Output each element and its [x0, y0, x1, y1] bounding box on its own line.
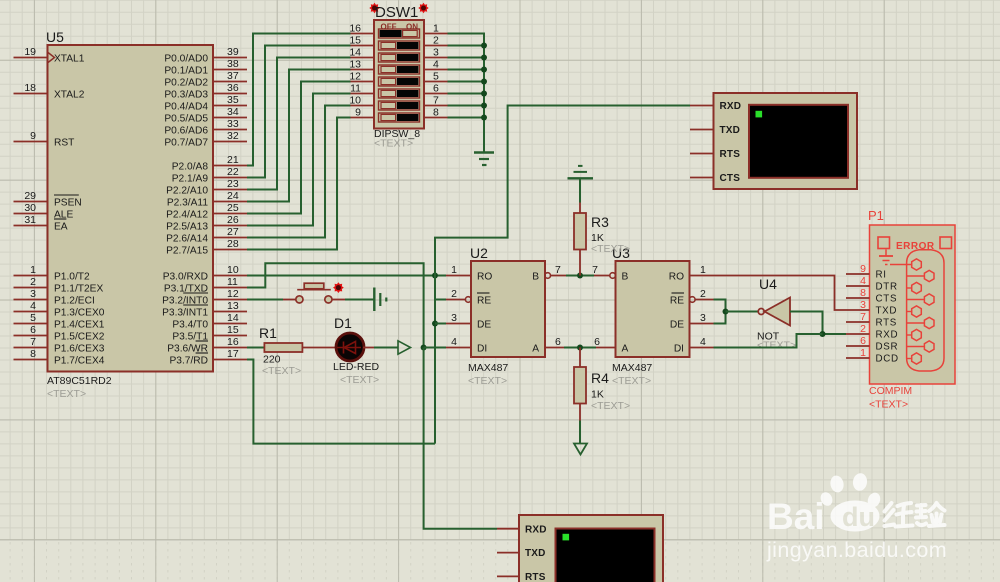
- svg-text:RO: RO: [669, 271, 684, 282]
- DIP switch DSW1 body: [374, 20, 424, 129]
- wire branch to U2 DE: [435, 323, 446, 325]
- wire DSW1 pin 12 to U5 P2.4: [247, 82, 351, 214]
- wire R3 to B line: [579, 250, 581, 276]
- svg-text:2: 2: [433, 35, 439, 47]
- DSW1 pin 1: [424, 23, 448, 35]
- U5 pin 30 ALE: [14, 202, 74, 220]
- wire R4 down: [579, 404, 581, 444]
- U5 pin 32 P0.7/AD7: [164, 130, 247, 148]
- P1 pin 3 TXD: [846, 299, 897, 317]
- DSW1 switch element 6: [379, 89, 420, 98]
- svg-text:3: 3: [700, 312, 706, 324]
- svg-text:3: 3: [860, 299, 866, 311]
- wire DSW1 pin 8 to bus junction: [448, 115, 488, 121]
- svg-text:P0.3/AD3: P0.3/AD3: [164, 89, 208, 100]
- junction node A line: [577, 345, 583, 351]
- svg-text:RI: RI: [876, 270, 887, 281]
- P1 pin 8 CTS: [846, 287, 897, 305]
- svg-text:24: 24: [227, 190, 239, 202]
- svg-text:39: 39: [227, 46, 239, 58]
- R4 labels: [591, 370, 630, 412]
- VT1 pin TXD: [690, 125, 740, 136]
- junction node B line: [577, 273, 583, 279]
- svg-text:10: 10: [349, 95, 361, 107]
- svg-text:R3: R3: [591, 214, 609, 230]
- DSW1 value label: [374, 128, 420, 150]
- svg-text:6: 6: [30, 324, 36, 336]
- U5 pin 9 RST: [14, 130, 75, 148]
- svg-text:P1: P1: [868, 208, 884, 223]
- svg-text:CTS: CTS: [876, 294, 898, 305]
- U5 pin 24 P2.3/A11: [167, 190, 247, 208]
- U5 pin 12 P3.2/INT0: [162, 288, 247, 306]
- U2 value label: [468, 362, 508, 387]
- P1 pin 9 RI: [846, 263, 887, 281]
- wire U5 P3.7 to RE/DE net: [247, 360, 435, 444]
- D1 labels: [333, 315, 380, 386]
- svg-text:B: B: [622, 271, 629, 282]
- DSW1 pin 9: [351, 107, 375, 119]
- VT2 pin RXD: [497, 524, 547, 535]
- wire DSW1 pin 11 to U5 P2.5: [247, 94, 351, 226]
- VT2 pin RTS: [497, 572, 546, 582]
- svg-text:6: 6: [555, 336, 561, 348]
- P1 DB9 connector face: [890, 250, 944, 371]
- svg-text:P1.6/CEX3: P1.6/CEX3: [54, 343, 105, 354]
- svg-text:P3.7/RD: P3.7/RD: [169, 355, 208, 366]
- svg-text:14: 14: [227, 312, 239, 324]
- U5 pin 18 XTAL2: [14, 82, 85, 100]
- svg-text:9: 9: [355, 107, 361, 119]
- svg-text:P2.0/A8: P2.0/A8: [172, 161, 209, 172]
- DSW1 pin 11: [350, 83, 374, 95]
- svg-text:P2.7/A15: P2.7/A15: [166, 245, 208, 256]
- VT1 pin CTS: [690, 173, 740, 184]
- svg-text:U4: U4: [759, 276, 777, 292]
- baidu watermark chinese: [885, 503, 945, 527]
- svg-text:29: 29: [24, 190, 36, 202]
- wire VT1 RXD to RO net: [435, 106, 690, 276]
- svg-text:13: 13: [227, 300, 239, 312]
- wire DSW1 pin 14 to U5 P2.2: [247, 58, 351, 190]
- svg-text:2: 2: [451, 288, 457, 300]
- svg-text:31: 31: [24, 214, 36, 226]
- wire DI node to U2 DI: [424, 347, 446, 349]
- svg-text:12: 12: [349, 71, 361, 83]
- svg-text:RTS: RTS: [876, 318, 898, 329]
- U3 pin 7 B: [592, 264, 628, 282]
- wire arrow: [398, 341, 411, 354]
- svg-text:7: 7: [592, 264, 598, 276]
- wire U2 B to U3 B: [566, 275, 594, 277]
- push button: [283, 283, 345, 303]
- svg-text:2: 2: [860, 323, 866, 335]
- svg-text:P2.5/A13: P2.5/A13: [166, 221, 208, 232]
- svg-text:14: 14: [349, 47, 361, 59]
- svg-text:CTS: CTS: [720, 173, 741, 184]
- U2 pin 2 RE: [446, 288, 491, 306]
- wire DSW1 pin 16 to U5 P2.0: [247, 34, 351, 166]
- svg-text:1: 1: [860, 347, 866, 359]
- baidu watermark url: [766, 538, 947, 562]
- svg-text:P0.4/AD4: P0.4/AD4: [164, 101, 208, 112]
- U5 pin 33 P0.6/AD6: [164, 118, 247, 136]
- U5 value label: [47, 375, 112, 400]
- U5 pin 31 EA: [14, 214, 68, 232]
- DSW1 pin 14: [349, 47, 374, 59]
- svg-text:15: 15: [349, 35, 361, 47]
- svg-text:RTS: RTS: [720, 149, 741, 160]
- svg-text:8: 8: [30, 348, 36, 360]
- DSW1 pin 8: [424, 107, 448, 119]
- svg-text:P0.5/AD5: P0.5/AD5: [164, 113, 208, 124]
- svg-text:<TEXT>: <TEXT>: [869, 399, 908, 411]
- svg-text:17: 17: [227, 348, 239, 360]
- P1 label: [868, 208, 884, 223]
- DSW1 pin 2: [424, 35, 448, 47]
- svg-text:TXD: TXD: [876, 306, 898, 317]
- svg-text:P0.6/AD6: P0.6/AD6: [164, 125, 208, 136]
- svg-text:U2: U2: [470, 245, 488, 261]
- wire U2 A to U3 A: [564, 347, 596, 349]
- U3 pin 4 DI: [674, 336, 714, 354]
- U5 pin 3 P1.2/ECI: [14, 288, 95, 306]
- wire U3 DI to RXD node: [714, 334, 823, 348]
- junction node RE/DE U3: [723, 309, 729, 315]
- svg-text:jingyan.baidu.com: jingyan.baidu.com: [766, 538, 947, 562]
- VT2 pin TXD: [497, 548, 546, 559]
- svg-text:3: 3: [433, 47, 439, 59]
- U5 pin 15 P3.5/T1: [172, 324, 247, 342]
- svg-text:XTAL1: XTAL1: [54, 53, 85, 64]
- svg-text:A: A: [622, 343, 629, 354]
- svg-text:5: 5: [433, 71, 439, 83]
- P1 pin 7 RTS: [846, 311, 897, 329]
- svg-text:1: 1: [451, 264, 457, 276]
- svg-text:P3.0/RXD: P3.0/RXD: [163, 271, 208, 282]
- svg-text:30: 30: [24, 202, 36, 214]
- svg-text:4: 4: [30, 300, 36, 312]
- wire DSW1 pin 5 to bus junction: [448, 79, 488, 85]
- baidu watermark text: [767, 472, 882, 537]
- U5 pin 7 P1.6/CEX3: [14, 336, 105, 354]
- DSW1 pin 12: [349, 71, 374, 83]
- DSW1 switch element 4: [379, 65, 420, 74]
- svg-text:RXD: RXD: [876, 330, 899, 341]
- svg-text:7: 7: [433, 95, 439, 107]
- wire DI node to bottom terminal: [424, 348, 497, 529]
- U3 pin 1 RO: [669, 264, 714, 282]
- svg-text:4: 4: [860, 275, 866, 287]
- red marker left of DSW1: [369, 3, 379, 13]
- svg-text:8: 8: [433, 107, 439, 119]
- IC body U2: [470, 245, 545, 357]
- svg-text:6: 6: [594, 336, 600, 348]
- U5 pin 37 P0.2/AD2: [164, 70, 247, 88]
- svg-text:11: 11: [350, 83, 361, 95]
- virtual terminal VT1: [714, 93, 858, 189]
- wire button to ground: [345, 299, 374, 301]
- svg-text:9: 9: [30, 130, 36, 142]
- svg-text:6: 6: [860, 335, 866, 347]
- svg-text:<TEXT>: <TEXT>: [591, 400, 630, 412]
- junction node DI: [421, 345, 427, 351]
- VT1 pin RTS: [690, 149, 740, 160]
- svg-text:1: 1: [30, 264, 36, 276]
- resistor R4: [574, 367, 586, 404]
- U5 pin 23 P2.2/A10: [166, 178, 247, 196]
- DSW1 pin 10: [349, 95, 374, 107]
- ground arrow below R4: [574, 444, 587, 455]
- svg-text:TXD: TXD: [720, 125, 741, 136]
- svg-text:MAX487: MAX487: [468, 362, 508, 374]
- U5 pin 13 P3.3/INT1: [162, 300, 247, 318]
- wire DSW1 pin 6 to bus junction: [448, 91, 488, 97]
- U5 pin 26 P2.5/A13: [166, 214, 247, 232]
- svg-text:DE: DE: [477, 319, 491, 330]
- svg-text:P2.1/A9: P2.1/A9: [172, 173, 209, 184]
- junction node DE: [432, 321, 438, 327]
- svg-text:11: 11: [227, 276, 238, 288]
- wire to U4 output: [726, 311, 759, 313]
- red state marker of button: [333, 282, 344, 293]
- svg-text:RST: RST: [54, 137, 74, 148]
- svg-text:<TEXT>: <TEXT>: [340, 374, 379, 386]
- U3 pin 3 DE: [670, 312, 714, 330]
- U5 pin 22 P2.1/A9: [172, 166, 247, 184]
- svg-text:3: 3: [30, 288, 36, 300]
- wire DSW1 pin 15 to U5 P2.1: [247, 46, 351, 178]
- svg-text:16: 16: [227, 336, 239, 348]
- svg-text:10: 10: [227, 264, 239, 276]
- wire U5 P3.2 to button: [247, 299, 283, 301]
- U3 value label: [612, 362, 652, 387]
- svg-text:4: 4: [451, 336, 457, 348]
- svg-text:9: 9: [860, 263, 866, 275]
- DSW1 pin 13: [349, 59, 374, 71]
- DSW1 switch element 3: [379, 53, 420, 62]
- U5 pin 14 P3.4/T0: [172, 312, 247, 330]
- U5 pin 10 P3.0/RXD: [163, 264, 247, 282]
- U5 pin 27 P2.6/A14: [166, 226, 247, 244]
- U5 pin 19 XTAL1: [14, 46, 85, 64]
- U2 pin 4 DI: [446, 336, 487, 354]
- svg-text:P1.7/CEX4: P1.7/CEX4: [54, 355, 105, 366]
- svg-text:RXD: RXD: [525, 524, 547, 535]
- svg-text:TXD: TXD: [525, 548, 546, 559]
- svg-text:<TEXT>: <TEXT>: [468, 375, 507, 387]
- svg-text:36: 36: [227, 82, 239, 94]
- svg-text:27: 27: [227, 226, 239, 238]
- svg-text:P0.1/AD1: P0.1/AD1: [164, 65, 208, 76]
- U3 pin 2 RE: [670, 288, 714, 306]
- U5 pin 25 P2.4/A12: [166, 202, 247, 220]
- P1 pin 2 RXD: [846, 323, 898, 341]
- svg-text:23: 23: [227, 178, 239, 190]
- wire DSW1 pin 13 to U5 P2.3: [247, 70, 351, 202]
- resistor R1: [264, 343, 302, 352]
- svg-text:1K: 1K: [591, 389, 604, 401]
- DSW1 switch element 2: [379, 41, 420, 50]
- svg-text:XTAL2: XTAL2: [54, 89, 85, 100]
- IC body U5: [46, 29, 213, 372]
- svg-text:34: 34: [227, 106, 239, 118]
- DSW1 pin 5: [424, 71, 448, 83]
- wire DSW1 pin 4 to bus junction: [448, 67, 488, 73]
- svg-text:P2.6/A14: P2.6/A14: [166, 233, 208, 244]
- svg-text:AT89C51RD2: AT89C51RD2: [47, 375, 112, 387]
- svg-text:33: 33: [227, 118, 239, 130]
- svg-text:25: 25: [227, 202, 239, 214]
- svg-text:P1.0/T2: P1.0/T2: [54, 271, 90, 282]
- U5 pin 16 P3.6/WR: [167, 336, 247, 354]
- svg-text:R1: R1: [259, 325, 277, 341]
- svg-text:<TEXT>: <TEXT>: [374, 138, 413, 150]
- ground (rotated) at button: [374, 288, 386, 312]
- svg-text:<TEXT>: <TEXT>: [757, 340, 796, 352]
- svg-text:P0.7/AD7: P0.7/AD7: [164, 137, 208, 148]
- svg-text:6: 6: [433, 83, 439, 95]
- svg-text:18: 18: [24, 82, 36, 94]
- P1 value label: [869, 385, 912, 411]
- wire U5 P3.6 to R1: [247, 347, 264, 349]
- R3 labels: [591, 214, 630, 255]
- svg-text:38: 38: [227, 58, 239, 70]
- P1 pin 6 DSR: [846, 335, 898, 353]
- U2 pin 6 A: [532, 336, 564, 354]
- U5 pin 38 P0.1/AD1: [164, 58, 247, 76]
- svg-text:4: 4: [433, 59, 439, 71]
- U5 pin 39 P0.0/AD0: [164, 46, 247, 64]
- svg-text:R4: R4: [591, 370, 609, 386]
- DSW1 switch element 5: [379, 77, 420, 86]
- DSW1 pin 4: [424, 59, 448, 71]
- svg-text:U5: U5: [46, 29, 64, 45]
- svg-text:RTS: RTS: [525, 572, 546, 582]
- svg-text:3: 3: [451, 312, 457, 324]
- wire rail to R3: [579, 178, 581, 213]
- svg-text:1: 1: [433, 23, 439, 35]
- wire U5 P3.1 TXD: [247, 263, 424, 347]
- svg-text:P1.1/T2EX: P1.1/T2EX: [54, 283, 103, 294]
- U5 pin 28 P2.7/A15: [166, 238, 247, 256]
- svg-text:P0.2/AD2: P0.2/AD2: [164, 77, 208, 88]
- junction node RXD: [820, 331, 826, 337]
- svg-text:LED-RED: LED-RED: [333, 361, 380, 373]
- wire R1 to D1: [302, 347, 336, 349]
- svg-text:RE: RE: [477, 295, 491, 306]
- DSW1 pin 16: [349, 23, 374, 35]
- svg-text:<TEXT>: <TEXT>: [47, 388, 86, 400]
- DSW1 pin 15: [349, 35, 374, 47]
- wire U3 RE branch: [714, 300, 726, 312]
- svg-text:26: 26: [227, 214, 239, 226]
- wire U3 DE branch: [714, 312, 726, 324]
- U5 pin 21 P2.0/A8: [172, 154, 247, 172]
- svg-text:37: 37: [227, 70, 239, 82]
- inverter U4: [758, 298, 790, 326]
- svg-text:D1: D1: [334, 315, 352, 331]
- svg-text:<TEXT>: <TEXT>: [262, 365, 301, 377]
- svg-text:35: 35: [227, 94, 239, 106]
- svg-text:22: 22: [227, 166, 239, 178]
- svg-text:PSEN: PSEN: [54, 197, 82, 208]
- svg-text:7: 7: [860, 311, 866, 323]
- svg-text:28: 28: [227, 238, 239, 250]
- svg-text:15: 15: [227, 324, 239, 336]
- DSW1 pin 7: [424, 95, 448, 107]
- wire U5 P3.0 to U2 RO: [247, 275, 446, 277]
- svg-text:220: 220: [263, 354, 281, 366]
- svg-text:P2.3/A11: P2.3/A11: [167, 197, 208, 208]
- IC body U3: [612, 245, 690, 357]
- U5 pin 1 P1.0/T2: [14, 264, 91, 282]
- svg-text:16: 16: [349, 23, 361, 35]
- DSW1 pin 3: [424, 47, 448, 59]
- svg-text:P3.3/INT1: P3.3/INT1: [162, 307, 208, 318]
- svg-text:8: 8: [860, 287, 866, 299]
- U5 pin 11 P3.1/TXD: [164, 276, 247, 294]
- wire U3 RO to COMPIM TXD: [714, 276, 847, 311]
- svg-text:B: B: [532, 271, 539, 282]
- red marker right of DSW1: [418, 3, 428, 13]
- wire U4 input: [790, 312, 846, 335]
- wire vertical RE/DE net: [434, 276, 436, 444]
- svg-text:2: 2: [700, 288, 706, 300]
- svg-text:32: 32: [227, 130, 239, 142]
- LED D1: [336, 333, 364, 361]
- wire A line to R4: [579, 348, 581, 368]
- U5 pin 5 P1.4/CEX1: [14, 312, 105, 330]
- DSW1 switch element 7: [379, 101, 420, 110]
- svg-text:4: 4: [700, 336, 706, 348]
- svg-text:21: 21: [227, 154, 239, 166]
- U5 pin 36 P0.3/AD3: [164, 82, 247, 100]
- R1 labels: [259, 325, 301, 377]
- svg-text:P1.2/ECI: P1.2/ECI: [54, 295, 95, 306]
- power rail symbol above R3: [568, 166, 594, 178]
- U2 pin 1 RO: [446, 264, 492, 282]
- junction node P3.0/RO: [432, 273, 438, 279]
- svg-text:COMPIM: COMPIM: [869, 385, 912, 397]
- svg-text:<TEXT>: <TEXT>: [591, 243, 630, 255]
- svg-text:<TEXT>: <TEXT>: [612, 375, 651, 387]
- wire branch to U2 RE: [435, 299, 446, 301]
- U3 pin 6 A: [594, 336, 628, 354]
- wire DSW1 pin 7 to bus junction: [448, 103, 488, 109]
- U5 pin 34 P0.5/AD5: [164, 106, 247, 124]
- U5 pin 17 P3.7/RD: [169, 348, 247, 366]
- DSW1 switch element 1: [379, 29, 420, 38]
- U2 pin 7 B: [532, 264, 566, 282]
- connector P1 body: [870, 225, 956, 384]
- svg-text:P1.3/CEX0: P1.3/CEX0: [54, 307, 105, 318]
- svg-text:7: 7: [30, 336, 36, 348]
- svg-text:A: A: [532, 343, 539, 354]
- virtual terminal VT2: [519, 515, 663, 582]
- svg-text:5: 5: [30, 312, 36, 324]
- U5 pin 6 P1.5/CEX2: [14, 324, 105, 342]
- resistor R3: [574, 213, 586, 250]
- svg-text:RE: RE: [670, 295, 684, 306]
- U5 pin 8 P1.7/CEX4: [14, 348, 105, 366]
- svg-text:DSR: DSR: [876, 342, 899, 353]
- svg-text:P1.5/CEX2: P1.5/CEX2: [54, 331, 105, 342]
- svg-text:RXD: RXD: [720, 101, 742, 112]
- DSW1 switch element 8: [379, 113, 420, 122]
- P1 internal ground: [879, 250, 893, 265]
- svg-text:1: 1: [700, 264, 706, 276]
